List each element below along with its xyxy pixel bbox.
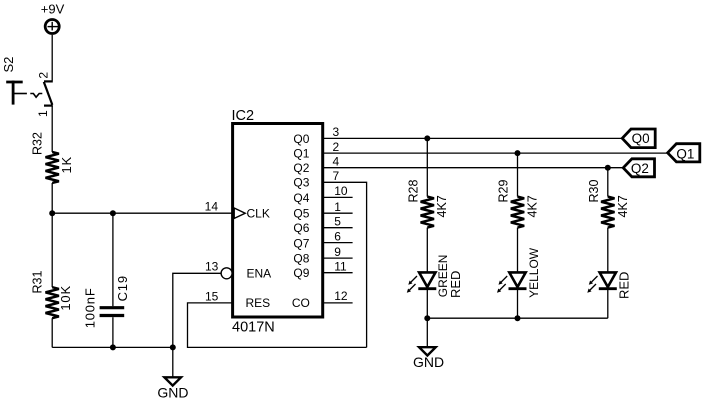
wire stub pin 11 (323, 272, 353, 274)
supply +9V (41, 2, 65, 34)
svg-text:IC2: IC2 (232, 108, 255, 124)
svg-text:Q3: Q3 (293, 176, 309, 190)
svg-text:R32: R32 (31, 132, 45, 155)
svg-text:Q2: Q2 (293, 161, 309, 175)
svg-text:15: 15 (205, 289, 219, 303)
svg-text:7: 7 (333, 169, 340, 183)
node Q1/R29 junction (515, 150, 521, 156)
connector Q0 (622, 129, 655, 148)
svg-text:10K: 10K (58, 285, 73, 311)
resistor R28 (407, 180, 450, 228)
resistor R29 (497, 180, 540, 228)
wire Q0 line pin 3 (323, 137, 623, 139)
node Q2/R30 junction (605, 165, 611, 171)
svg-text:S2: S2 (1, 57, 16, 73)
svg-text:Q1: Q1 (676, 146, 694, 161)
svg-text:R28: R28 (407, 180, 421, 203)
wire switch to R32 (51, 106, 53, 152)
svg-text:2: 2 (333, 140, 340, 154)
svg-text:1K: 1K (59, 156, 74, 174)
svg-text:Q5: Q5 (293, 207, 309, 221)
wire R30 top lead (607, 168, 609, 197)
resistor R31 (31, 271, 74, 319)
wire LED3 bottom lead (607, 289, 609, 319)
wire R32 to CLK node (51, 183, 53, 213)
node Q0/R28 junction (424, 135, 430, 141)
wire LED1 bottom lead (426, 289, 428, 319)
svg-text:GND: GND (413, 354, 444, 370)
svg-text:2: 2 (37, 72, 51, 79)
wire R28 top lead (426, 138, 428, 196)
wire stub pin 9 (323, 257, 353, 259)
wire node to R31 (51, 213, 53, 287)
svg-text:RED: RED (617, 272, 632, 299)
wire Q1 line pin 2 (323, 152, 668, 154)
IC IC2 4017N (232, 108, 323, 336)
svg-text:100nF: 100nF (83, 287, 98, 328)
svg-text:4: 4 (333, 155, 340, 169)
svg-text:R31: R31 (31, 271, 45, 294)
pin CLK 14 (205, 200, 270, 221)
svg-text:Q9: Q9 (293, 266, 309, 280)
svg-text:CLK: CLK (247, 207, 270, 221)
svg-text:4K7: 4K7 (616, 195, 630, 217)
svg-text:Q8: Q8 (293, 252, 309, 266)
resistor R30 (587, 180, 630, 228)
connector Q1 (668, 144, 700, 162)
wire LED2 bottom lead (517, 289, 519, 319)
wire ENA to gnd (173, 273, 221, 347)
svg-text:ENA: ENA (247, 267, 272, 281)
wire gnd rail (52, 346, 173, 348)
wire RES loop (188, 303, 367, 348)
svg-text:9: 9 (334, 245, 341, 259)
node CLK junction (49, 210, 55, 216)
svg-text:Q1: Q1 (293, 147, 309, 161)
wire stub pin 5 (323, 227, 353, 229)
pin numbers right (333, 125, 348, 303)
svg-text:12: 12 (334, 289, 348, 303)
svg-text:11: 11 (334, 260, 347, 274)
svg-text:6: 6 (334, 229, 341, 243)
svg-text:Q0: Q0 (293, 132, 309, 146)
svg-text:RED: RED (448, 271, 463, 298)
wire R31 to gnd rail (51, 318, 53, 347)
wire LED1 top lead (426, 228, 428, 273)
svg-text:C19: C19 (115, 275, 130, 301)
wire supply to switch (51, 35, 53, 81)
wire stub pin 6 (323, 242, 353, 244)
svg-text:CO: CO (292, 296, 310, 310)
svg-text:1: 1 (334, 200, 341, 214)
node gnd junction (170, 344, 176, 350)
LED2 yellow (497, 247, 541, 298)
wire Q2 line pin 4 (323, 167, 623, 169)
ground GND right (413, 318, 444, 370)
svg-text:RES: RES (246, 296, 271, 310)
svg-text:4017N: 4017N (232, 320, 275, 336)
svg-text:YELLOW: YELLOW (527, 247, 541, 298)
wire pin 7 Q3 feedback (323, 182, 367, 347)
pin names Q0-Q9 CO (292, 132, 310, 310)
svg-text:R29: R29 (497, 180, 511, 203)
svg-text:R30: R30 (587, 180, 601, 203)
svg-text:Q2: Q2 (631, 161, 649, 176)
wire LED3 top lead (607, 228, 609, 273)
wire LED bottom rail (427, 317, 608, 319)
svg-text:GND: GND (157, 384, 188, 400)
node C19 top junction (110, 210, 116, 216)
svg-text:Q6: Q6 (293, 221, 309, 235)
svg-text:13: 13 (205, 260, 219, 274)
wire LED2 top lead (517, 228, 519, 273)
LED1 green (407, 255, 463, 298)
svg-text:4K7: 4K7 (525, 195, 539, 217)
wire stub pin 1 (323, 212, 353, 214)
svg-text:Q7: Q7 (293, 236, 309, 250)
wire R29 top lead (517, 153, 519, 197)
node C19 bottom junction (110, 344, 116, 350)
svg-text:5: 5 (334, 215, 341, 229)
wire CLK line (52, 212, 232, 214)
svg-text:+9V: +9V (41, 2, 65, 17)
wire stub pin 12 CO (323, 302, 353, 304)
resistor R32 (31, 132, 75, 183)
ground GND left (157, 347, 188, 400)
svg-text:14: 14 (205, 200, 219, 214)
svg-text:Q0: Q0 (632, 131, 650, 146)
svg-text:10: 10 (334, 184, 348, 198)
svg-text:1: 1 (36, 110, 50, 117)
LED3 red (587, 272, 631, 299)
node LED1 rail junction (424, 315, 430, 321)
connector Q2 (623, 159, 654, 177)
svg-text:4K7: 4K7 (435, 195, 449, 217)
svg-text:3: 3 (333, 125, 340, 139)
capacitor C19 (83, 213, 130, 347)
wire stub pin 10 (323, 196, 353, 198)
svg-text:Q4: Q4 (293, 191, 309, 205)
switch S2 (1, 57, 53, 117)
pin ENA 13 (205, 260, 271, 281)
pin RES 15 (205, 289, 270, 310)
node LED2 rail junction (515, 315, 521, 321)
